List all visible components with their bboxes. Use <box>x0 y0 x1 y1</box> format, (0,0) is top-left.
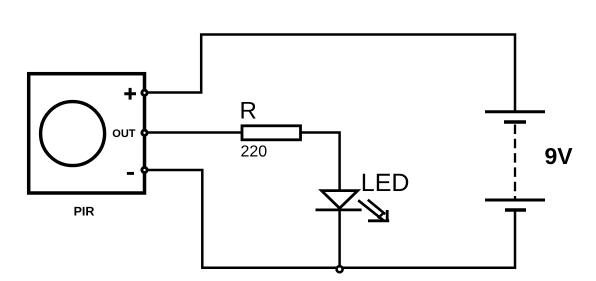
resistor R <box>242 126 301 140</box>
LED D1 triangle <box>322 191 358 209</box>
battery top cell short plate <box>504 120 526 123</box>
LED cathode bar <box>316 208 362 211</box>
battery bottom cell long plate <box>485 199 545 202</box>
LED arrowhead inner diagonal <box>378 212 385 218</box>
label + (plus sign) <box>124 88 136 100</box>
wire from LED cathode down to bottom node <box>338 210 341 268</box>
wire from OUT pin to resistor R1 <box>145 131 242 134</box>
battery dashed link between cells <box>514 125 516 201</box>
battery bottom cell short plate (-) <box>505 208 526 211</box>
wire from + pin up and across to battery positive <box>145 35 516 111</box>
PIR sensor body box U1 <box>29 74 145 193</box>
label - (minus sign) <box>127 172 134 175</box>
pin OUT terminal <box>142 130 147 135</box>
pin - terminal <box>142 167 147 172</box>
svg-text:LED: LED <box>361 169 410 197</box>
svg-text:9V: 9V <box>545 143 574 169</box>
svg-text:OUT: OUT <box>112 128 136 140</box>
svg-text:220: 220 <box>241 144 268 161</box>
pin + terminal <box>142 90 147 95</box>
wire from - pin down and along bottom to battery negative <box>145 170 516 268</box>
LED emission arrow 2 <box>368 200 385 214</box>
svg-text:PIR: PIR <box>74 205 95 219</box>
PIR sensor lens circle <box>41 102 105 166</box>
LED arrowhead horizontal bar <box>368 219 389 222</box>
LED arrowhead vertical bar <box>386 210 389 221</box>
wire from resistor to LED anode <box>301 133 340 191</box>
LED emission arrow 1 <box>358 200 383 220</box>
svg-text:R: R <box>240 98 257 125</box>
battery B1 top cell long plate (+) <box>485 110 545 113</box>
node junction at bottom <box>337 266 343 272</box>
